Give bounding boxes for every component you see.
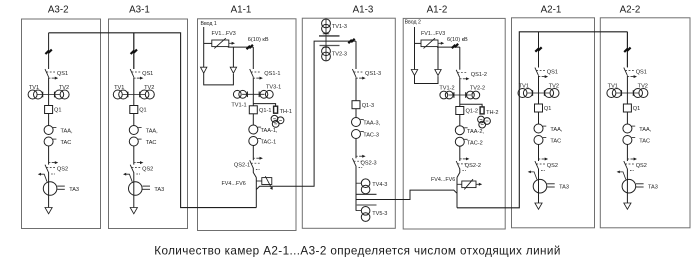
wire: column to section bus <box>456 178 458 208</box>
zero-sequence CT TA3 (A3-2) <box>40 174 47 182</box>
svg-text:TAA,: TAA, <box>550 127 562 133</box>
svg-text:TA3: TA3 <box>154 187 164 193</box>
voltage transformer TV2-3 <box>325 41 327 60</box>
svg-text:QS1-2: QS1-2 <box>471 72 487 78</box>
svg-text:TV1-1: TV1-1 <box>231 102 246 108</box>
svg-text:TV2-3: TV2-3 <box>332 52 347 58</box>
wire <box>133 146 135 165</box>
svg-text:TV2: TV2 <box>638 83 648 89</box>
svg-text:Количество камер А2-1...А3-2 о: Количество камер А2-1...А3-2 определяетс… <box>154 244 561 257</box>
svg-text:QS1: QS1 <box>547 70 558 76</box>
svg-text:TAA,: TAA, <box>639 127 651 133</box>
wire: incoming cable (A1-1) <box>203 27 205 67</box>
circuit breaker Q1 (A3-2) <box>45 106 53 114</box>
cable termination (right) A1-1 <box>230 67 236 73</box>
svg-text:QS2-1: QS2-1 <box>234 162 250 168</box>
voltage transformers TV (A1-1) <box>242 93 264 95</box>
svg-text:А1-1: А1-1 <box>231 4 252 15</box>
disconnector QS2 (A3-2) <box>45 165 49 173</box>
svg-text:6(10) кВ: 6(10) кВ <box>447 37 468 43</box>
wire <box>459 115 461 126</box>
svg-text:Q1: Q1 <box>139 107 146 113</box>
outgoing line arrow (A2-2) <box>624 203 631 209</box>
svg-text:TV2: TV2 <box>549 83 559 89</box>
disconnector QS1 (A3-1) <box>130 69 134 77</box>
svg-text:А3-1: А3-1 <box>129 4 150 15</box>
wire: sectionalizer column <box>355 41 357 69</box>
disconnector QS1 (A3-2) <box>45 69 49 77</box>
svg-text:А2-2: А2-2 <box>620 4 641 15</box>
cable termination (left) A1-1 <box>201 67 207 73</box>
wire <box>459 78 461 106</box>
svg-text:TV5-3: TV5-3 <box>372 211 387 217</box>
svg-text:Ввод 1: Ввод 1 <box>201 21 217 27</box>
wire <box>48 114 50 126</box>
svg-text:QS2-2: QS2-2 <box>465 163 481 169</box>
wire: to switch column <box>228 46 254 48</box>
current transformer TAC-3 <box>352 130 361 139</box>
svg-text:Q1: Q1 <box>633 106 640 112</box>
wire <box>48 146 50 165</box>
svg-text:QS2-3: QS2-3 <box>361 160 377 166</box>
voltage transformers TV1/TV2 (A2-2) <box>616 92 638 94</box>
svg-text:TAA,: TAA, <box>61 129 73 135</box>
disconnector QS1-3 <box>352 69 356 77</box>
outgoing line arrow (A3-1) <box>130 208 137 214</box>
current transformer TAC (A2-1) <box>534 136 543 145</box>
svg-text:QS2: QS2 <box>547 163 558 169</box>
svg-text:QS2: QS2 <box>57 167 68 173</box>
svg-text:Q1-1: Q1-1 <box>259 108 271 114</box>
current transformer TAC (A3-2) <box>44 137 53 146</box>
svg-text:QS1: QS1 <box>142 71 153 77</box>
busbar tap <box>356 204 377 206</box>
wire: A3-1 feeder column <box>133 33 135 69</box>
wire: A3-2 feeder column <box>48 33 50 69</box>
wire <box>538 76 540 104</box>
disconnector QS1-1 <box>250 69 254 77</box>
svg-text:TA3: TA3 <box>559 185 569 191</box>
svg-text:6(10) кВ: 6(10) кВ <box>248 37 269 43</box>
svg-text:TAC: TAC <box>550 139 561 145</box>
svg-text:Q1-2: Q1-2 <box>466 109 478 115</box>
svg-text:TH-2: TH-2 <box>486 110 498 116</box>
wire <box>48 77 50 105</box>
line-break marker (A1-3) <box>348 39 354 43</box>
wire <box>538 112 540 124</box>
current transformer TAA (A2-1) <box>534 124 543 133</box>
wire <box>626 145 628 162</box>
svg-text:TAA-1,: TAA-1, <box>261 128 278 134</box>
current transformer TAA-1 <box>249 125 258 134</box>
current transformer TAC-2 <box>455 137 464 146</box>
disconnector QS2 (A2-1) <box>535 161 539 169</box>
busbar section 2 tap <box>320 45 340 47</box>
disconnector QS1-2 <box>456 70 460 78</box>
cable termination (left) A1-2 <box>411 70 417 76</box>
svg-text:TV3-1: TV3-1 <box>266 85 281 91</box>
panel A1-1 outline <box>198 19 297 231</box>
wire <box>252 47 254 69</box>
wire <box>355 109 357 118</box>
circuit breaker Q1-3 <box>352 101 360 109</box>
svg-text:TA3: TA3 <box>69 187 79 193</box>
zero-sequence CT TA3 (A2-2) <box>619 172 626 180</box>
wire <box>626 169 628 203</box>
svg-text:FV4...FV6: FV4...FV6 <box>222 181 246 187</box>
wire <box>133 114 135 126</box>
panel A2-2 outline <box>600 18 690 228</box>
svg-text:QS2: QS2 <box>636 163 647 169</box>
svg-text:TAC: TAC <box>61 140 72 146</box>
svg-text:TV2: TV2 <box>59 85 69 91</box>
svg-text:TV1: TV1 <box>608 83 618 89</box>
wire: link A1-3 to A1-2 (sectionalizer to section 2) <box>356 190 457 199</box>
disconnector QS1 (A2-2) <box>624 68 628 76</box>
voltage transformers TV (A1-2) <box>449 94 471 96</box>
svg-text:TAC: TAC <box>639 139 650 145</box>
wire <box>459 47 461 70</box>
panel A3-2 outline <box>22 19 101 229</box>
svg-text:Ввод 2: Ввод 2 <box>405 20 421 26</box>
wire: to switch column <box>437 46 460 48</box>
circuit breaker Q1 (A2-2) <box>623 104 631 112</box>
busbar section 1 tap <box>319 35 340 37</box>
wire <box>355 166 357 211</box>
zero-sequence CT TA3 (A3-1) <box>125 174 132 182</box>
wire <box>355 139 357 159</box>
wire <box>459 146 461 161</box>
aux voltage transformer TH-1 <box>253 104 275 107</box>
wire <box>538 145 540 162</box>
voltage transformers TV1/TV2 (A3-2) <box>37 94 59 96</box>
svg-text:TAC-3: TAC-3 <box>363 133 379 139</box>
svg-text:FV1...FV3: FV1...FV3 <box>421 31 445 37</box>
svg-text:FV1...FV3: FV1...FV3 <box>212 31 236 37</box>
svg-text:Q1-3: Q1-3 <box>362 103 374 109</box>
svg-text:А1-2: А1-2 <box>427 4 448 15</box>
current transformer TAA-3 <box>352 118 361 127</box>
wire: A3-1 feeder drop <box>133 33 135 69</box>
wire: jog to lower column <box>457 169 460 178</box>
disconnector QS2 (A2-2) <box>624 161 628 169</box>
disconnector QS1 (A2-1) <box>535 68 539 76</box>
svg-text:TAC-2: TAC-2 <box>467 140 483 146</box>
wire: A2-2 feeder column <box>626 32 628 68</box>
current transformer TAC (A3-1) <box>129 137 138 146</box>
svg-text:TV1: TV1 <box>29 85 39 91</box>
svg-text:TV1-3: TV1-3 <box>332 24 347 30</box>
current transformer TAA (A2-2) <box>623 124 632 133</box>
wire: A2-2 feeder drop <box>626 32 628 67</box>
svg-text:TV4-3: TV4-3 <box>372 182 387 188</box>
voltage transformer TV5-3 <box>356 210 361 212</box>
wire <box>252 146 254 161</box>
A3-2 line-break marker <box>45 50 51 54</box>
svg-text:Q1: Q1 <box>54 107 61 113</box>
wire: A2-1 feeder drop <box>538 32 540 67</box>
wire <box>626 112 628 124</box>
circuit breaker Q1 (A3-1) <box>130 106 138 114</box>
current transformer TAA-2 <box>455 126 464 135</box>
disconnector QS2-3 <box>352 158 356 166</box>
wire <box>232 47 234 67</box>
wire: jog to lower column <box>253 168 256 178</box>
svg-text:TAC: TAC <box>146 140 157 146</box>
panel A2-1 outline <box>512 18 595 228</box>
wire <box>133 172 135 207</box>
busbar tap <box>357 193 377 195</box>
wire <box>355 77 357 101</box>
svg-text:TV2-2: TV2-2 <box>470 85 485 91</box>
voltage transformer TV4-3 <box>356 182 361 184</box>
wire: section 2 bus (A1-2 output to A2-1/A2-2 feeders) <box>457 32 627 208</box>
wire: jumper <box>204 73 234 85</box>
svg-text:Q1: Q1 <box>544 106 551 112</box>
wire <box>626 76 628 104</box>
svg-text:TAC-1: TAC-1 <box>261 140 277 146</box>
svg-text:TV2: TV2 <box>144 85 154 91</box>
svg-text:А2-1: А2-1 <box>541 4 562 15</box>
aux voltage transformer TH-2 <box>460 104 482 107</box>
wire: A2-1 feeder column <box>538 32 540 68</box>
svg-text:TAA-2,: TAA-2, <box>467 129 484 135</box>
wire <box>252 114 254 125</box>
disconnector QS2-1 <box>250 160 254 168</box>
wire <box>48 172 50 207</box>
svg-text:TA3: TA3 <box>648 185 658 191</box>
wire: column to section bus <box>255 178 257 208</box>
svg-text:TH-1: TH-1 <box>280 109 292 115</box>
wire <box>538 169 540 203</box>
current transformer TAA (A3-2) <box>44 126 53 135</box>
panel A1-3 outline <box>302 18 395 228</box>
svg-text:TV1-2: TV1-2 <box>439 85 454 91</box>
svg-text:TV1: TV1 <box>114 85 124 91</box>
A2-1 line-break marker <box>535 47 541 51</box>
svg-text:А3-2: А3-2 <box>48 4 69 15</box>
outgoing line arrow (A2-1) <box>535 203 542 209</box>
circuit breaker Q1-1 <box>249 106 257 114</box>
A2-2 line-break marker <box>624 48 630 52</box>
circuit breaker Q1 (A2-1) <box>535 104 543 112</box>
wire <box>133 77 135 105</box>
outgoing line arrow (A3-2) <box>45 208 52 214</box>
voltage transformers TV1/TV2 (A3-1) <box>123 94 145 96</box>
wire: link A1-1 to A1-3 (section 1 to bus sectionalizer) <box>256 41 356 189</box>
svg-text:QS1-1: QS1-1 <box>264 71 280 77</box>
line-break marker (A1-1) <box>247 45 253 49</box>
current transformer TAA (A3-1) <box>129 126 138 135</box>
svg-text:FV4...FV6: FV4...FV6 <box>431 177 455 183</box>
wire: incoming cable (A1-2) <box>414 27 416 70</box>
svg-text:TAA-3,: TAA-3, <box>363 121 380 127</box>
panel A3-1 outline <box>109 19 188 229</box>
line-break marker (A1-2) <box>452 44 458 48</box>
cable termination (right) A1-2 <box>435 70 441 76</box>
wire <box>437 47 439 69</box>
current transformer TAC (A2-2) <box>623 136 632 145</box>
svg-text:А1-3: А1-3 <box>353 4 374 15</box>
wire: jumper <box>415 76 439 84</box>
circuit breaker Q1-2 <box>456 107 464 115</box>
svg-text:TAA,: TAA, <box>146 129 158 135</box>
svg-text:QS1: QS1 <box>57 71 68 77</box>
disconnector QS2 (A3-1) <box>130 165 134 173</box>
svg-text:QS2: QS2 <box>142 167 153 173</box>
svg-text:QS1: QS1 <box>636 70 647 76</box>
voltage transformers TV1/TV2 (A2-1) <box>527 92 549 94</box>
zero-sequence CT TA3 (A2-1) <box>530 172 537 180</box>
voltage transformer TV1-3 <box>325 20 327 42</box>
svg-text:QS1-3: QS1-3 <box>365 71 381 77</box>
wire: section 1 bus (A1-1 output to A3-1/A3-2 feeders) <box>49 33 257 208</box>
wire <box>252 77 254 105</box>
A3-1 line-break marker <box>131 50 137 54</box>
panel A1-2 outline <box>403 18 505 229</box>
svg-text:TV1: TV1 <box>519 83 529 89</box>
current transformer TAC-1 <box>249 137 258 146</box>
disconnector QS2-2 <box>456 161 460 169</box>
